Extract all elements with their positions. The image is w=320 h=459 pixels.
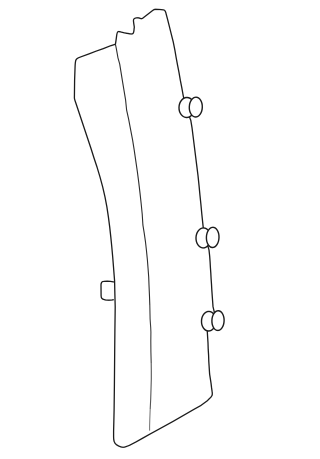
mounting pin 3 front face bbox=[212, 311, 225, 331]
panel outline bbox=[74, 9, 214, 447]
mounting pin 1 front face bbox=[189, 97, 203, 117]
crease line fading end bbox=[149, 409, 152, 431]
mounting pin 3 back rim bbox=[201, 311, 216, 331]
left tab bbox=[101, 281, 114, 300]
crease line bbox=[116, 45, 150, 305]
crease line lower part 2 bbox=[150, 363, 151, 409]
crease line lower part bbox=[150, 305, 151, 363]
mounting pin 1 back rim bbox=[179, 97, 195, 118]
mounting pin 2 front face bbox=[206, 227, 219, 248]
mounting pin 2 back rim bbox=[196, 228, 211, 248]
